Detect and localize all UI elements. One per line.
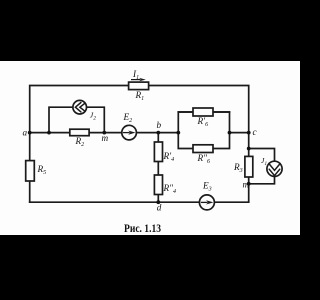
current arrow I1: [131, 78, 146, 81]
resistor R1: [129, 82, 149, 90]
svg-text:m: m: [102, 133, 109, 143]
voltage source E3: [199, 195, 214, 210]
wire: middle a-b wire: [30, 132, 179, 134]
svg-text:b: b: [157, 120, 162, 130]
resistor R'4: [154, 142, 162, 162]
current source J1: [267, 161, 282, 176]
resistor R''4: [154, 175, 162, 195]
resistor R2: [70, 129, 89, 136]
wire: J1 loop: [249, 149, 275, 184]
resistor R5: [26, 161, 35, 181]
wire: bottom wire: [30, 201, 249, 203]
resistor R'6: [193, 108, 213, 116]
current source J2: [73, 100, 87, 114]
node junction J2 left: [47, 131, 51, 135]
svg-text:a: a: [23, 128, 28, 138]
node m (right): [247, 182, 251, 186]
current source J1 chevrons (pointing down): [269, 164, 280, 176]
voltage source E2 arrow: [123, 131, 136, 135]
node m (left): [102, 131, 106, 135]
node d: [156, 200, 160, 204]
wire: middle c-side wire: [230, 132, 249, 134]
wire: parallel box R6: [178, 112, 229, 149]
black bottom band: [0, 235, 300, 300]
black top band: [0, 0, 300, 61]
svg-text:c: c: [253, 127, 257, 137]
voltage source E2: [122, 125, 137, 140]
wire: parallel box top branch: [178, 111, 229, 113]
node parallel left: [176, 131, 180, 135]
wire: J2 loop: [49, 107, 104, 132]
node b: [156, 131, 160, 135]
node a: [28, 131, 32, 135]
node c: [247, 131, 251, 135]
resistor R''6: [193, 145, 213, 153]
voltage source E3 arrow: [201, 200, 214, 204]
wire: top wire: [30, 86, 249, 203]
svg-text:d: d: [157, 203, 162, 213]
wire: b-d vertical: [157, 133, 159, 203]
node J1 top junction: [247, 147, 251, 151]
svg-text:Рис. 1.13: Рис. 1.13: [124, 221, 161, 235]
current source J2 chevrons (pointing left): [75, 103, 85, 112]
node parallel right: [228, 131, 232, 135]
resistor R3: [245, 156, 253, 177]
svg-text:m: m: [243, 180, 250, 190]
white scan area: [0, 61, 300, 235]
